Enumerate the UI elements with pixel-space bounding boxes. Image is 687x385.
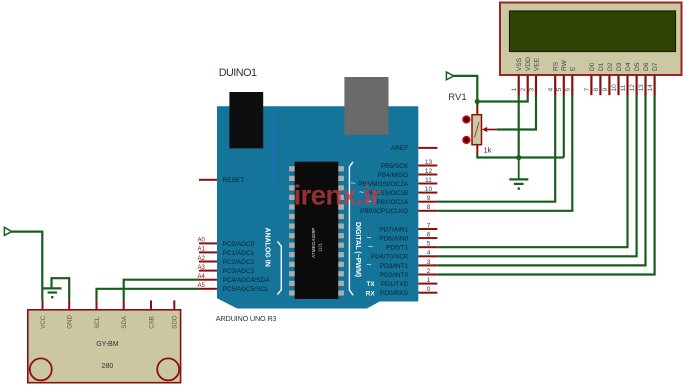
svg-text:9: 9: [427, 195, 431, 202]
pin 6 stub: [418, 237, 437, 239]
wire LCD VSS pin1 to ground bus: [518, 95, 520, 158]
module pin CSB stub: [150, 300, 152, 310]
svg-text:SDO: SDO: [172, 315, 179, 329]
pin 10 stub: [418, 192, 437, 194]
svg-text:TX: TX: [367, 281, 376, 288]
svg-text:8: 8: [593, 88, 600, 92]
svg-text:6: 6: [427, 232, 431, 239]
svg-text:13: 13: [425, 159, 433, 166]
analog group bracket: [277, 242, 281, 295]
svg-text:PD3/INT1: PD3/INT1: [380, 263, 409, 270]
svg-text:PD6/AIN0: PD6/AIN0: [379, 236, 408, 243]
module pin VCC stub: [42, 300, 44, 310]
svg-text:1: 1: [427, 277, 431, 284]
wire LCD E pin6 to Arduino pin8: [437, 95, 572, 211]
LCD pin 12 stub: [636, 75, 638, 95]
IC U1 pin pads: [289, 166, 344, 295]
wire LCD RW pin5 to ground bus: [563, 95, 565, 158]
svg-text:SDA: SDA: [121, 315, 128, 329]
svg-text:ATMEGA328P: ATMEGA328P: [311, 228, 316, 258]
svg-text:D2: D2: [607, 62, 614, 71]
LCD pin 9 stub: [608, 75, 610, 95]
svg-text:10: 10: [425, 186, 433, 193]
LCD pin 6 stub: [571, 75, 573, 95]
module mounting hole left: [30, 358, 52, 380]
LCD screen: [510, 11, 676, 52]
svg-text:PD7/AIN1: PD7/AIN1: [379, 226, 408, 233]
svg-text:GY-BM: GY-BM: [96, 341, 118, 348]
wire LCD D7 to Arduino pin2: [437, 95, 654, 275]
svg-text:1: 1: [511, 88, 518, 92]
potentiometer RV1 bottom pin stub: [476, 145, 478, 155]
IC U1 ATMEGA328P chip body: [295, 162, 339, 299]
svg-text:12: 12: [425, 168, 433, 175]
svg-text:D0: D0: [589, 62, 596, 71]
svg-text:PB5/SCK: PB5/SCK: [381, 163, 409, 170]
wire module GND to ground: [52, 278, 70, 300]
LCD pin 8 stub: [599, 75, 601, 95]
svg-text:RV1: RV1: [448, 92, 466, 103]
svg-text:VCC: VCC: [40, 315, 47, 329]
pin 8 stub: [418, 210, 437, 212]
svg-text:PD5/T1: PD5/T1: [386, 245, 408, 252]
svg-text:13: 13: [638, 84, 645, 92]
svg-text:A3: A3: [198, 265, 206, 271]
pin A1 stub: [199, 251, 217, 253]
svg-text:PC2/ADC2: PC2/ADC2: [223, 259, 255, 266]
svg-text:14: 14: [647, 84, 654, 92]
svg-text:DIGITAL (~PWM): DIGITAL (~PWM): [354, 222, 361, 277]
sensor module GY-BM 280 body: [28, 310, 181, 383]
svg-text:RS: RS: [553, 61, 560, 71]
svg-text:5: 5: [427, 241, 431, 248]
LCD pin 14 stub: [654, 75, 656, 95]
svg-text:12: 12: [629, 84, 636, 92]
svg-text:RX: RX: [366, 290, 376, 297]
RV1 terminal indicator top (red ring): [463, 116, 469, 122]
svg-text:PC1/ADC1: PC1/ADC1: [223, 250, 255, 257]
potentiometer RV1 body: [472, 115, 482, 145]
wire module SCL to Arduino A5: [97, 289, 200, 301]
pin 13 stub: [418, 165, 437, 167]
svg-text:9: 9: [602, 88, 609, 92]
module pin GND stub: [68, 300, 70, 310]
ground symbol left: [43, 288, 61, 292]
svg-text:1k: 1k: [484, 146, 492, 155]
svg-text:4: 4: [427, 250, 431, 257]
pin A3 stub: [199, 270, 217, 272]
svg-text:ARDUINO UNO R3: ARDUINO UNO R3: [216, 314, 277, 323]
svg-text:GND: GND: [67, 315, 74, 329]
svg-text:CSB: CSB: [148, 316, 155, 329]
wire LCD D6 to Arduino pin3: [437, 95, 645, 265]
svg-text:3: 3: [427, 259, 431, 266]
svg-text:D4: D4: [625, 62, 632, 71]
svg-text:PD2/INT0: PD2/INT0: [380, 272, 409, 279]
svg-text:DUINO1: DUINO1: [219, 67, 257, 79]
wire ground bus RV1 bottom to RW: [477, 154, 564, 158]
svg-text:280: 280: [102, 363, 114, 370]
svg-text:A2: A2: [198, 256, 206, 262]
LCD pin 11 stub: [626, 75, 628, 95]
wire module SDA to Arduino A4: [124, 280, 199, 301]
pin 0 stub: [418, 292, 437, 294]
LCD module LCD1 body: [500, 3, 682, 76]
wire LCD D4 to Arduino pin5: [437, 95, 627, 247]
pin 1 stub: [418, 283, 437, 285]
module pin SCL stub: [96, 300, 98, 310]
svg-text:A1: A1: [198, 247, 206, 253]
power connector: [344, 77, 388, 135]
pin A5 stub: [199, 288, 217, 290]
svg-text:PD0/RXD: PD0/RXD: [380, 290, 408, 297]
svg-text:RESET: RESET: [223, 177, 245, 184]
pin A4 stub: [199, 279, 217, 281]
svg-text:PB1/OC1A: PB1/OC1A: [376, 199, 408, 206]
RV1 terminal indicator bottom (red ring): [463, 137, 469, 143]
svg-text:11: 11: [620, 84, 627, 91]
svg-text:VDD: VDD: [525, 57, 532, 71]
svg-text:7: 7: [584, 88, 591, 92]
pin 5 stub: [418, 246, 437, 248]
terminal (power) at RV1: [446, 72, 453, 80]
pin AREF stub: [418, 147, 437, 149]
module pin SDO stub: [173, 300, 175, 310]
LCD pin 2 stub: [527, 75, 529, 95]
svg-text:VEE: VEE: [533, 57, 540, 71]
wire LCD VEE pin3 to RV1 wiper: [497, 95, 536, 130]
pin 9 stub: [418, 201, 437, 203]
potentiometer RV1 graphic mark: [475, 122, 480, 138]
svg-text:PB4/MISO: PB4/MISO: [377, 172, 408, 179]
svg-text:irenx.ir: irenx.ir: [294, 180, 382, 211]
LCD pin 3 stub: [535, 75, 537, 95]
svg-text:1121: 1121: [318, 242, 323, 252]
svg-text:D1: D1: [598, 62, 605, 71]
svg-text:PD1/TXD: PD1/TXD: [381, 281, 409, 288]
wire RV1 terminal to VDD node: [454, 76, 478, 106]
svg-text:PC5/ADC5/SCL: PC5/ADC5/SCL: [223, 286, 270, 293]
wire LCD VDD pin2 to RV1 top node: [477, 95, 527, 102]
USB connector: [229, 92, 263, 148]
svg-text:PD4/T0/XCK: PD4/T0/XCK: [371, 254, 409, 261]
wire LCD D5 to Arduino pin4: [437, 95, 636, 256]
svg-text:PC4/ADC4/SDA: PC4/ADC4/SDA: [223, 277, 271, 284]
LCD pin 1 stub: [518, 75, 520, 95]
svg-text:ANALOG IN: ANALOG IN: [263, 228, 270, 267]
LCD pin 5 stub: [563, 75, 565, 95]
svg-text:4: 4: [548, 88, 555, 92]
module mounting hole right: [157, 358, 179, 380]
svg-text:0: 0: [427, 286, 431, 293]
RV1 wiper arrow: [485, 129, 497, 131]
svg-text:D3: D3: [616, 62, 623, 71]
module pin SDA stub: [123, 300, 125, 310]
pin 12 stub: [418, 174, 437, 176]
Arduino UNO board DUINO1: [217, 106, 418, 308]
wire LCD RS pin4 to Arduino pin9: [437, 95, 555, 202]
wire VCC terminal to module VCC: [12, 232, 43, 301]
svg-text:VSS: VSS: [516, 57, 523, 71]
svg-text:11: 11: [425, 177, 432, 184]
pin 2 stub: [418, 274, 437, 276]
svg-text:2: 2: [520, 88, 527, 92]
pin 7 stub: [418, 228, 437, 230]
potentiometer RV1 top pin stub: [476, 105, 478, 115]
svg-text:microcontrolandos.blogspot.com: microcontrolandos.blogspot.com: [270, 109, 276, 190]
pin A2 stub: [199, 261, 217, 263]
svg-text:3: 3: [528, 88, 535, 92]
svg-text:PC0/ADC0: PC0/ADC0: [223, 241, 255, 248]
svg-text:7: 7: [427, 222, 431, 229]
svg-text:10: 10: [611, 84, 618, 92]
ground symbol right: [509, 158, 528, 184]
svg-text:2: 2: [427, 268, 431, 275]
LCD pin 13 stub: [644, 75, 646, 95]
LCD pin 10 stub: [617, 75, 619, 95]
LCD pin 7 stub: [590, 75, 592, 95]
pin 4 stub: [418, 255, 437, 257]
pin 11 stub: [418, 183, 437, 185]
terminal (power) at module VCC: [4, 227, 11, 235]
pin RESET stub: [199, 179, 217, 181]
svg-text:E: E: [570, 66, 577, 71]
svg-text:5: 5: [556, 88, 563, 92]
digital group bracket: [349, 162, 353, 295]
svg-text:A0: A0: [198, 238, 206, 244]
svg-text:6: 6: [565, 88, 572, 92]
svg-text:D5: D5: [634, 62, 641, 71]
svg-text:PC3/ADC3: PC3/ADC3: [223, 268, 255, 275]
svg-text:8: 8: [427, 204, 431, 211]
svg-text:~: ~: [368, 242, 373, 252]
svg-text:~: ~: [367, 260, 372, 270]
svg-text:RW: RW: [561, 59, 568, 71]
node junction RV1 top (VDD): [475, 99, 480, 104]
svg-text:AREF: AREF: [391, 145, 408, 152]
LCD pin 4 stub: [554, 75, 556, 95]
pin 3 stub: [418, 264, 437, 266]
pin A0 stub: [199, 242, 217, 244]
svg-text:D6: D6: [643, 62, 650, 71]
svg-text:D7: D7: [652, 62, 659, 71]
node junction ground bus: [516, 155, 521, 160]
svg-text:SCL: SCL: [94, 316, 101, 329]
